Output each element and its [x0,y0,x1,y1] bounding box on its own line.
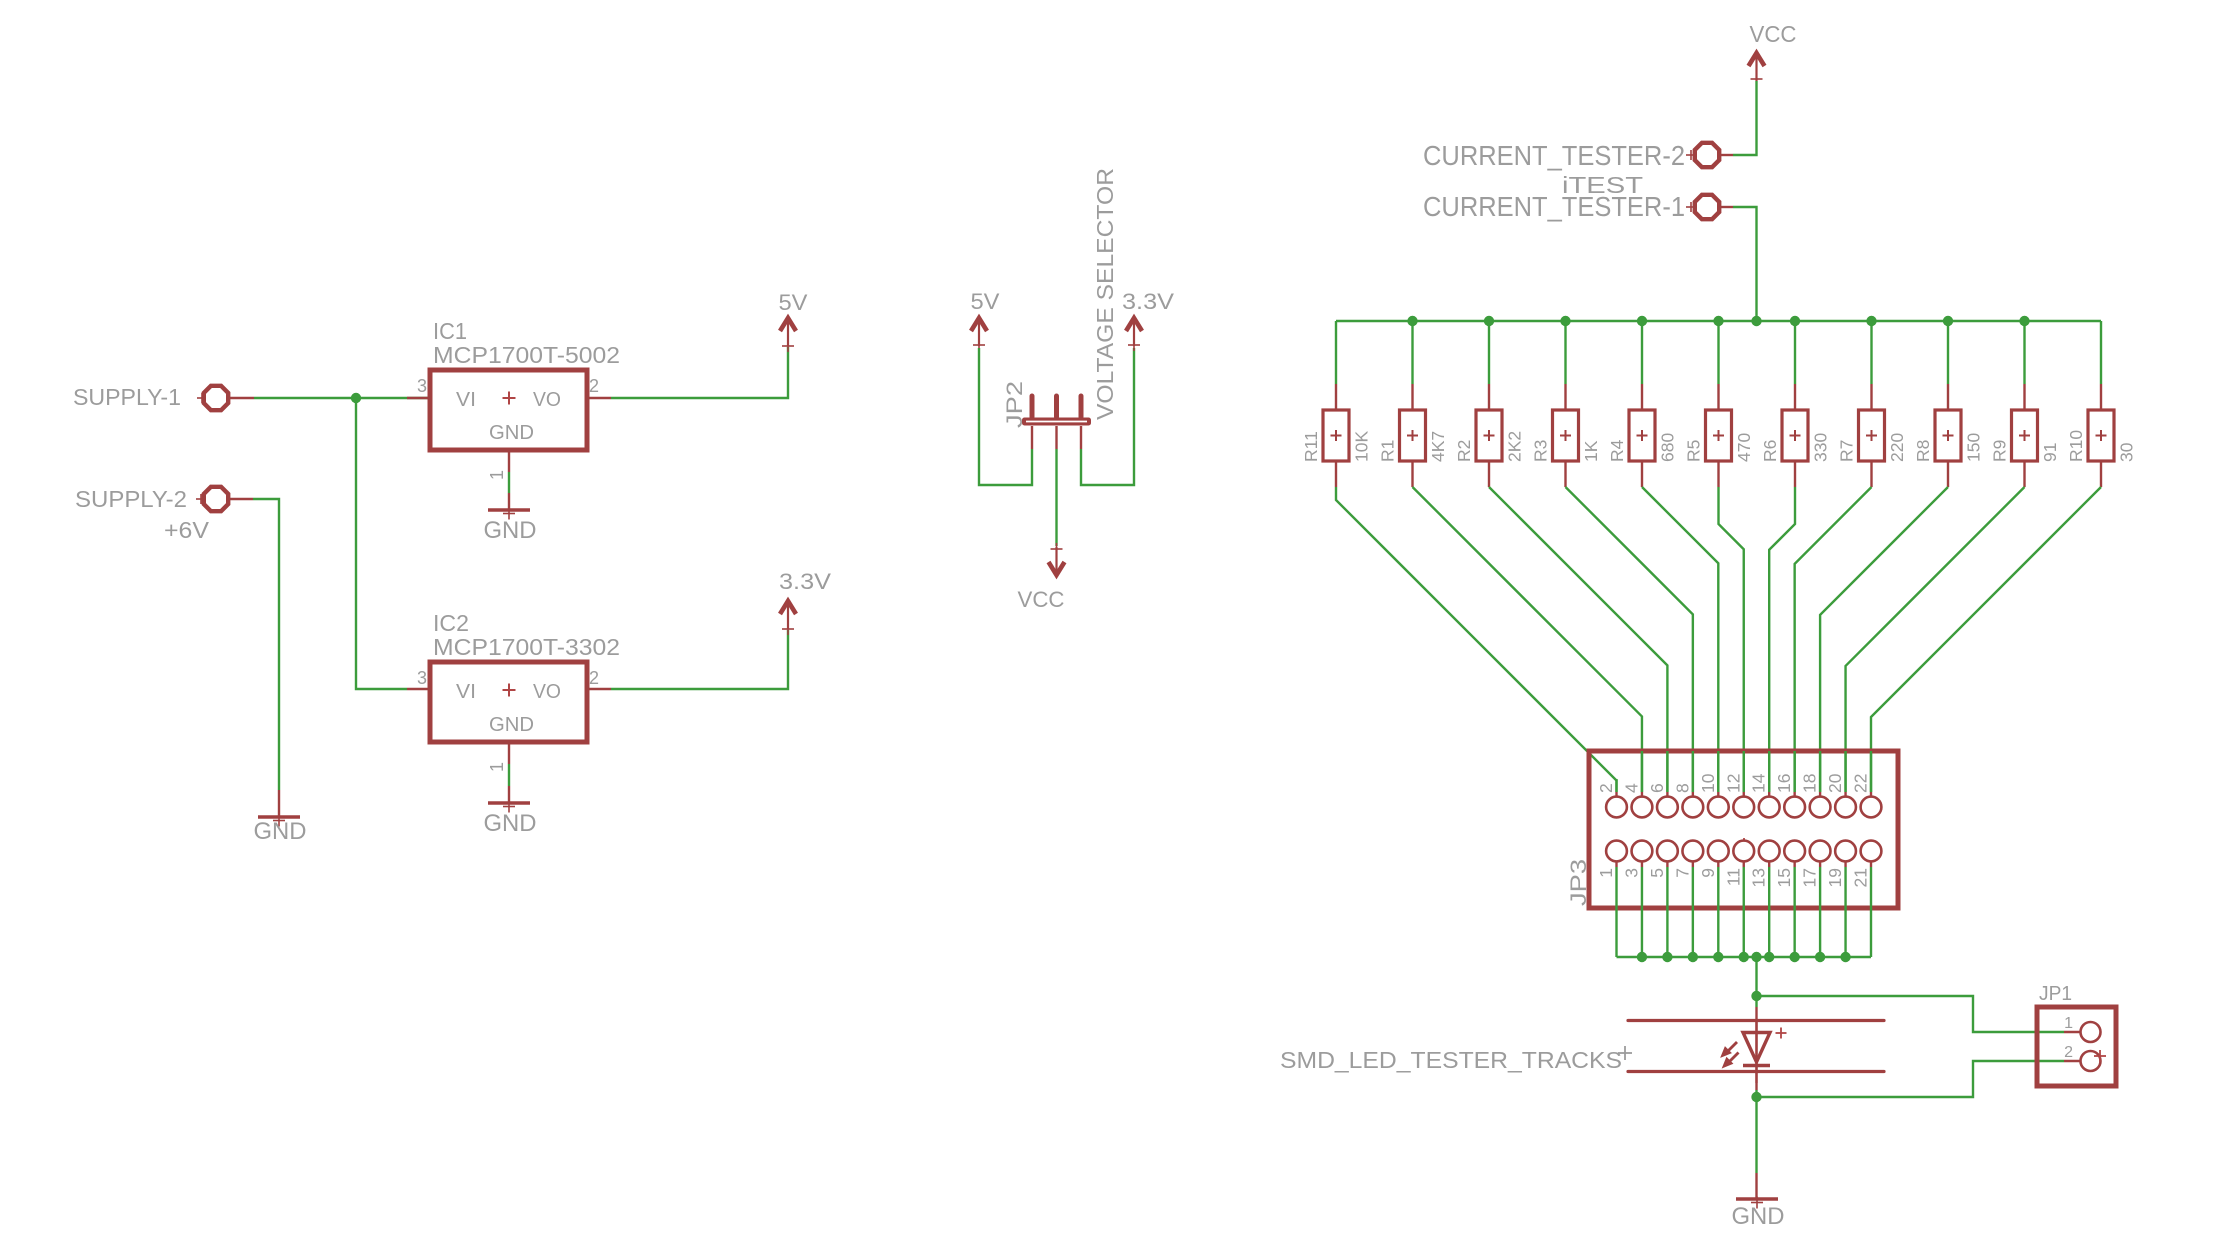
svg-text:2: 2 [589,376,599,396]
svg-text:14: 14 [1749,773,1769,793]
svg-text:22: 22 [1851,774,1871,793]
svg-text:VCC: VCC [1018,587,1065,612]
label R4 [1607,439,1627,462]
value 470 [1734,433,1754,462]
svg-text:1: 1 [1596,868,1616,878]
svg-text:R7: R7 [1837,440,1857,462]
JP3 pad pin 12 [1733,751,1754,817]
svg-text:1: 1 [2064,1015,2073,1032]
wire R6 to JP3 pin 14 [1769,487,1795,792]
svg-text:150: 150 [1964,433,1984,462]
svg-text:R3: R3 [1531,440,1551,462]
wire VCC to CURRENT_TESTER-2 [1733,81,1757,155]
svg-text:VO: VO [533,389,561,411]
wire IC2 VO to 3.3V arrow [611,630,788,689]
bus wire JP3 odd pins (bottom horizontal) [1617,956,1872,958]
R2 bottom pin stub [1488,461,1490,487]
JP3 origin cross [1737,838,1751,852]
pin number 21 [1851,868,1871,887]
svg-text:CURRENT_TESTER-2: CURRENT_TESTER-2 [1423,140,1685,171]
svg-text:30: 30 [2117,442,2137,462]
wire bus to R2 top [1488,321,1490,384]
IC2 labels [433,610,620,660]
wire R8 to JP3 pin 18 [1820,487,1948,792]
svg-text:R4: R4 [1607,439,1627,462]
junction dot at R9 column [2019,316,2029,326]
IC1 pin 2 (VO) [587,376,611,398]
pin number 6 [1647,783,1667,793]
regulator IC1 MCP1700T-5002 body [430,370,587,450]
pin number 1 [1596,868,1616,878]
junction dot at LED drop column [1751,952,1761,962]
JP3 pad pin 7 [1682,841,1703,867]
JP3 pad pin 22 [1861,751,1882,817]
wire LED cathode to JP1 pin 2 [1757,1061,2065,1097]
connector pad SUPPLY-2 [75,486,228,512]
svg-text:R2: R2 [1454,440,1474,462]
junction dot at pin 9 column [1713,952,1723,962]
pin number 8 [1672,783,1692,793]
label SMD_LED_TESTER_TRACKS [1280,1046,1632,1073]
label R3 [1531,440,1551,462]
value 4K7 [1428,431,1448,462]
pin number 20 [1825,773,1845,793]
wire LED anode to JP1 pin 1 [1757,996,2065,1032]
svg-text:10: 10 [1698,773,1718,793]
resistor R10 [2088,410,2114,461]
svg-text:R11: R11 [1301,431,1321,462]
wire IC2 GND pin to ground [508,764,510,786]
JP3 pad pin 17 [1810,841,1831,867]
label R9 [1990,440,2010,462]
label R1 [1378,440,1398,462]
svg-text:VI: VI [456,681,476,703]
label R8 [1913,440,1933,462]
R9 bottom pin stub [2023,461,2025,487]
junction dot at pin 19 column [1840,952,1850,962]
junction dot LED anode node [1751,991,1761,1001]
svg-text:GND: GND [484,810,537,837]
svg-text:330: 330 [1811,433,1831,462]
wire bus to R11 top [1335,321,1337,384]
R9 top pin stub [2023,384,2025,409]
IC2 pin 1 (GND) [487,742,509,772]
supply symbol VCC (selector output) [1018,543,1065,612]
resistor R2 [1476,410,1502,461]
label R7 [1837,440,1857,462]
svg-text:SUPPLY-2: SUPPLY-2 [75,486,187,512]
label iTEST [1562,172,1643,198]
pin number 18 [1800,774,1820,793]
ground symbol (LED tester) [1732,1197,1785,1231]
pin number 10 [1698,773,1718,793]
wire JP3 pin 13 to bus [1768,867,1770,957]
wire bus to R5 top [1717,321,1719,384]
svg-text:21: 21 [1851,868,1871,887]
connector pad SUPPLY-1 [73,384,228,410]
R10 top pin stub [2100,384,2102,409]
pin number 14 [1749,773,1769,793]
supply symbol 5V (selector) [971,289,1000,351]
JP2 pin2 stub (middle) [1055,426,1057,449]
svg-text:8: 8 [1672,783,1692,793]
svg-text:3: 3 [417,376,427,396]
pin number 12 [1723,774,1743,793]
wire SUPPLY-2 to GND [253,499,279,790]
wire bus down to LED node [1755,957,1757,996]
supply symbol 5V (IC1 output) [779,290,808,352]
svg-text:2: 2 [1596,783,1616,793]
wire bus to R7 top [1870,321,1872,384]
LED D1 symbol [1743,1020,1787,1083]
pin number 19 [1825,868,1845,887]
junction dot at pin 11 column [1739,952,1749,962]
svg-text:16: 16 [1774,774,1794,793]
svg-text:17: 17 [1800,868,1820,887]
svg-text:1: 1 [487,470,507,480]
ground symbol (SUPPLY-2) [254,815,307,846]
svg-text:6: 6 [1647,783,1667,793]
connector JP3 body [1566,751,1898,908]
supply symbol 3.3V (selector) [1122,289,1174,351]
wire bus to R6 top [1794,321,1796,384]
label R10 [2066,430,2086,462]
pin number 11 [1723,868,1743,886]
svg-text:GND: GND [254,818,307,845]
R6 bottom pin stub [1794,461,1796,487]
svg-text:VOLTAGE SELECTOR: VOLTAGE SELECTOR [1092,168,1118,420]
svg-text:IC1: IC1 [433,318,467,344]
wire JP2 pin2 to VCC [1055,449,1057,546]
JP3 pad pin 5 [1657,841,1678,867]
svg-text:GND: GND [1732,1203,1785,1230]
value 220 [1887,433,1907,462]
wire JP3 pin 15 to bus [1793,867,1795,957]
R6 top pin stub [1794,384,1796,409]
pin number 4 [1621,783,1641,793]
svg-text:7: 7 [1672,868,1692,878]
value 1K [1581,440,1601,462]
R3 top pin stub [1564,384,1566,409]
wire anode stub [1755,996,1757,1020]
svg-text:R9: R9 [1990,440,2010,462]
svg-text:2K2: 2K2 [1505,431,1525,462]
svg-text:9: 9 [1698,868,1718,878]
R4 bottom pin stub [1641,461,1643,487]
JP3 pad pin 1 [1606,841,1627,867]
wire bus to R1 top [1411,321,1413,384]
svg-text:GND: GND [489,422,534,444]
junction dot LED cathode node [1751,1092,1761,1102]
svg-text:R1: R1 [1378,440,1398,462]
junction dot at R4 column [1637,316,1647,326]
R3 bottom pin stub [1564,461,1566,487]
value 2K2 [1505,431,1525,462]
R11 top pin stub [1335,384,1337,409]
svg-text:R8: R8 [1913,440,1933,462]
R1 top pin stub [1411,384,1413,409]
svg-text:5V: 5V [971,289,1000,314]
wire R11 to JP3 pin 2 [1336,487,1617,792]
svg-text:SUPPLY-1: SUPPLY-1 [73,384,181,410]
pad CURRENT_TESTER-2 [1423,140,1733,171]
R7 top pin stub [1870,384,1872,409]
pin number 3 [1621,868,1641,878]
resistor R11 [1323,410,1349,461]
svg-text:MCP1700T-5002: MCP1700T-5002 [433,342,620,368]
wire R1 to JP3 pin 4 [1413,487,1642,792]
wire bus to R10 top [2100,321,2102,384]
JP2 pin3 stub [1080,426,1082,449]
IC2 pin 3 (VI) [407,668,430,689]
resistor R6 [1782,410,1808,461]
junction dot at pin 7 column [1688,952,1698,962]
svg-text:R5: R5 [1684,440,1704,462]
junction dot at pin 17 column [1815,952,1825,962]
regulator IC2 MCP1700T-3302 body [430,662,587,742]
pin number 15 [1774,868,1794,887]
svg-text:+6V: +6V [164,517,210,543]
value 91 [2040,443,2060,462]
wire R3 to JP3 pin 8 [1566,487,1693,792]
svg-text:JP1: JP1 [2039,983,2072,1005]
ground symbol (IC1) [484,508,537,545]
JP3 pad pin 9 [1708,841,1729,867]
svg-text:4: 4 [1621,783,1641,793]
svg-text:R10: R10 [2066,430,2086,462]
pin number 5 [1647,868,1667,878]
wire bus to R4 top [1641,321,1643,384]
jumper JP2 header [1002,381,1091,428]
junction dot at R8 column [1943,316,1953,326]
R8 top pin stub [1947,384,1949,409]
IC2 pin 2 (VO) [587,668,611,689]
wire SUPPLY-1 pin stub [230,397,255,399]
svg-text:680: 680 [1658,433,1678,462]
value 30 [2117,442,2137,462]
junction dot at R7 column [1866,316,1876,326]
svg-text:SMD_LED_TESTER_TRACKS: SMD_LED_TESTER_TRACKS [1280,1047,1622,1073]
R5 bottom pin stub [1717,461,1719,487]
JP3 pad pin 20 [1835,751,1856,817]
junction dot at pin 13 column [1764,952,1774,962]
value 10K [1352,431,1372,462]
svg-text:3: 3 [417,668,427,688]
wire JP3 pin 7 to bus [1692,867,1694,957]
svg-text:11: 11 [1723,868,1743,886]
wire cathode stub [1755,1083,1757,1090]
junction dot at R2 column [1484,316,1494,326]
label +6V [164,517,210,543]
wire JP3 pin 21 to bus [1870,867,1872,957]
svg-text:12: 12 [1723,774,1743,793]
wire R9 to JP3 pin 20 [1846,487,2025,792]
bus wire iTEST (top horizontal) [1336,320,2101,322]
JP2 pin1 stub [1031,426,1033,449]
wire JP3 pin 19 to bus [1844,867,1846,957]
junction dot iTEST drop [1751,316,1761,326]
wire R10 to JP3 pin 22 [1871,487,2101,792]
value 150 [1964,433,1984,462]
svg-text:VCC: VCC [1750,21,1797,47]
svg-text:2: 2 [2064,1044,2073,1061]
pin number 22 [1851,774,1871,793]
JP3 pad pin 2 [1606,779,1627,817]
value 680 [1658,433,1678,462]
pad CURRENT_TESTER-1 [1423,191,1733,222]
wire R5 to JP3 pin 12 [1719,487,1744,792]
wire R2 to JP3 pin 6 [1489,487,1667,792]
label R11 [1301,431,1321,462]
connector JP1 [2037,983,2116,1086]
svg-text:VI: VI [456,389,476,411]
gnd pin stub IC2 [508,786,510,803]
resistor R9 [2012,410,2038,461]
JP3 pad pin 3 [1632,841,1653,867]
gnd pin stub SUPPLY-2 [278,790,280,817]
junction dot at pin 5 column [1662,952,1672,962]
svg-text:470: 470 [1734,433,1754,462]
pin number 7 [1672,868,1692,878]
JP3 pad pin 21 [1861,841,1882,867]
svg-text:GND: GND [484,517,537,544]
gnd pin stub (bottom) [1755,1173,1757,1199]
wire R7 to JP3 pin 16 [1795,487,1872,792]
wire CURRENT_TESTER-1 to resistor bus (net iTEST) [1733,207,1757,321]
LED arrows [1722,1042,1739,1067]
track upper (SMD_LED_TESTER_TRACKS) [1628,1019,1884,1022]
wire JP3 pin 1 to bus [1615,867,1617,957]
JP3 pad pin 11 [1733,841,1754,867]
junction dot at R3 column [1560,316,1570,326]
svg-text:MCP1700T-3302: MCP1700T-3302 [433,634,620,660]
svg-text:VO: VO [533,681,561,703]
ground symbol (IC2) [484,801,537,838]
svg-text:1: 1 [487,762,507,772]
resistor R8 [1935,410,1961,461]
wire bus to R8 top [1947,321,1949,384]
R7 bottom pin stub [1870,461,1872,487]
supply symbol 3.3V (IC2 output) [779,569,831,635]
resistor R4 [1629,410,1655,461]
svg-text:5V: 5V [779,290,808,315]
supply symbol VCC (top) [1749,21,1797,85]
wire R4 to JP3 pin 10 [1642,487,1718,792]
R1 bottom pin stub [1411,461,1413,487]
wire JP3 pin 11 to bus [1743,867,1745,957]
value 330 [1811,433,1831,462]
JP1 pin2 stub [2064,1060,2081,1062]
R2 top pin stub [1488,384,1490,409]
track lower (SMD_LED_TESTER_TRACKS) [1628,1070,1884,1073]
svg-text:GND: GND [489,714,534,736]
wire JP2 pin3 to 3.3V [1081,348,1134,485]
wire JP3 pin 5 to bus [1666,867,1668,957]
wire bus to R9 top [2023,321,2025,384]
svg-text:5: 5 [1647,868,1667,878]
JP3 pad pin 19 [1835,841,1856,867]
R8 bottom pin stub [1947,461,1949,487]
wire SUPPLY-1 to IC1 VI (net +6V) [254,397,430,399]
svg-text:2: 2 [589,668,599,688]
svg-text:R6: R6 [1760,440,1780,462]
IC1 pin 1 (GND) [487,450,509,480]
junction dot at pin 3 column [1637,952,1647,962]
svg-text:15: 15 [1774,868,1794,887]
resistor R7 [1859,410,1885,461]
resistor R3 [1553,410,1579,461]
svg-text:3.3V: 3.3V [1122,289,1174,314]
wire branch to IC2 VI [356,398,407,689]
svg-text:IC2: IC2 [433,610,469,636]
svg-text:13: 13 [1749,868,1769,887]
IC1 labels [433,318,620,368]
pin number 16 [1774,774,1794,793]
gnd pin stub IC1 [508,493,510,510]
wire JP3 pin 17 to bus [1819,867,1821,957]
label R2 [1454,440,1474,462]
junction dot at R6 column [1790,316,1800,326]
label R5 [1684,440,1704,462]
R4 top pin stub [1641,384,1643,409]
pin number 2 [1596,783,1616,793]
wire cathode to junction [1755,1090,1757,1097]
JP3 pad pin 14 [1759,751,1780,817]
JP3 pad pin 15 [1784,841,1805,867]
svg-text:18: 18 [1800,774,1820,793]
junction dot at pin 15 column [1789,952,1799,962]
wire IC1 GND pin to ground [508,472,510,493]
R5 top pin stub [1717,384,1719,409]
wire bus to R3 top [1564,321,1566,384]
wire IC1 VO to 5V arrow [611,347,788,398]
R10 bottom pin stub [2100,461,2102,487]
svg-text:20: 20 [1825,773,1845,793]
junction dot node +6V [351,393,361,403]
JP3 pad pin 18 [1810,751,1831,817]
junction dot at R1 column [1407,316,1417,326]
R11 bottom pin stub [1335,461,1337,487]
wire cathode node to GND [1755,1097,1757,1173]
wire SUPPLY-2 pin stub [230,498,254,500]
svg-text:3.3V: 3.3V [779,569,831,594]
wire 5V to JP2 pin1 [979,348,1032,485]
svg-text:CURRENT_TESTER-1: CURRENT_TESTER-1 [1423,191,1685,222]
svg-text:91: 91 [2040,443,2060,462]
wire JP3 pin 3 to bus [1641,867,1643,957]
JP3 pad pin 6 [1657,751,1678,817]
resistor R1 [1400,410,1426,461]
resistor R5 [1706,410,1732,461]
svg-text:4K7: 4K7 [1428,431,1448,462]
JP3 pad pin 8 [1682,751,1703,817]
pin number 13 [1749,868,1769,887]
svg-text:10K: 10K [1352,431,1372,462]
label R6 [1760,440,1780,462]
label VOLTAGE SELECTOR [1092,168,1118,420]
pin number 17 [1800,868,1820,887]
JP1 pin1 stub [2064,1031,2081,1033]
JP3 pad pin 13 [1759,841,1780,867]
JP3 pad pin 10 [1708,751,1729,817]
svg-text:19: 19 [1825,868,1845,887]
junction dot at R5 column [1713,316,1723,326]
wire JP3 pin 9 to bus [1717,867,1719,957]
svg-text:220: 220 [1887,433,1907,462]
JP3 pad pin 16 [1784,751,1805,817]
svg-text:3: 3 [1621,868,1641,878]
JP3 pad pin 4 [1632,751,1653,817]
